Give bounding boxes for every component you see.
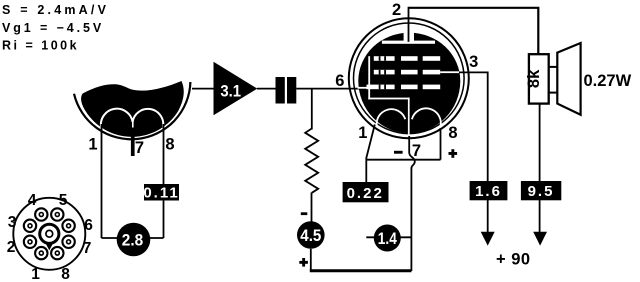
svg-text:1: 1	[88, 136, 97, 154]
svg-text:1: 1	[31, 266, 40, 282]
tube V2 anode notch for pin2	[404, 30, 414, 42]
wire tube V1 pin8 down	[163, 124, 165, 238]
svg-text:2: 2	[7, 239, 16, 256]
arrow screen supply	[481, 232, 495, 246]
wire pin7 with hop over wire	[409, 136, 415, 169]
speaker horn	[557, 43, 580, 115]
minus sign at 4.5	[301, 212, 308, 215]
wire rail up to cathode pin7	[410, 168, 412, 272]
svg-text:0.27W: 0.27W	[584, 72, 632, 90]
tube V2 electrode disc	[358, 33, 460, 134]
value circle 4.5 (grid bias battery)	[297, 221, 325, 249]
wire stub to 1.4	[366, 236, 411, 238]
wire resistor to battery 4.5	[311, 193, 313, 223]
wire V1 anode to amplifier	[192, 88, 214, 90]
svg-text:5: 5	[59, 192, 68, 209]
wire amplifier to capacitor	[257, 88, 276, 90]
tube V2 right hump	[412, 108, 441, 127]
svg-text:S = 2.4mA/V: S = 2.4mA/V	[2, 3, 109, 17]
wire capacitor to grid pin6	[296, 88, 359, 90]
wire pin8 down	[440, 128, 442, 160]
socket pin 7	[62, 236, 74, 248]
svg-text:0.11: 0.11	[143, 184, 179, 201]
wire pin2 up to HT rail	[408, 7, 410, 42]
wire bottom joining pins 1-8	[102, 237, 164, 239]
svg-text:7: 7	[135, 139, 144, 157]
svg-text:1.4: 1.4	[378, 230, 398, 248]
wire junction to grid resistor	[311, 89, 313, 130]
svg-text:3: 3	[8, 214, 17, 231]
tube V1 pin 7 stub	[131, 128, 135, 157]
wire transformer down	[539, 104, 541, 233]
plus sign at cathode	[449, 149, 458, 158]
tube V2 inner envelope	[354, 23, 465, 134]
wire HT rail top	[409, 8, 539, 54]
svg-text:2: 2	[392, 1, 401, 19]
svg-text:3: 3	[469, 53, 478, 71]
value circle 2.8	[117, 223, 151, 257]
tube V2 center white lead	[408, 98, 410, 135]
tube V2 pin6 white lead	[358, 87, 368, 89]
tube V2 left hump	[377, 109, 406, 127]
plus sign at 4.5	[299, 258, 308, 267]
tube socket diagram	[7, 192, 94, 282]
tube V2 grid bracket	[368, 56, 370, 99]
minus sign at cathode	[394, 151, 403, 154]
svg-text:8: 8	[165, 136, 174, 154]
socket pin 4	[35, 208, 47, 220]
svg-text:1.6: 1.6	[475, 183, 502, 200]
wire bottom rail	[310, 269, 412, 272]
amplifier triangle 3.1	[214, 62, 258, 116]
socket pin 8	[51, 247, 63, 259]
svg-text:8: 8	[61, 266, 70, 282]
svg-text:7: 7	[83, 240, 92, 257]
wire pin1 diagonal down	[366, 125, 375, 183]
socket center key	[40, 224, 59, 243]
wire pin3 to screen	[459, 72, 488, 233]
svg-text:4.5: 4.5	[300, 227, 321, 245]
wire pin1 to pin8 horizontal	[366, 159, 440, 161]
svg-text:+ 90: + 90	[496, 251, 531, 269]
svg-text:1: 1	[358, 124, 367, 142]
svg-text:0.22: 0.22	[347, 185, 384, 202]
socket outline	[13, 198, 85, 270]
tube V2 grid row2	[374, 70, 459, 75]
value box 0.11	[143, 184, 179, 201]
tube V1 left hump	[101, 109, 163, 128]
socket pin 3	[24, 220, 36, 232]
speaker stubs	[549, 66, 558, 68]
tube V1 cathode blob	[81, 81, 184, 137]
svg-text:2.8: 2.8	[122, 232, 143, 250]
svg-text:6: 6	[84, 217, 93, 234]
socket pin 5	[51, 208, 63, 220]
socket pin 2	[24, 236, 36, 248]
tube V2 outer envelope	[349, 18, 469, 138]
capacitor C1	[276, 77, 297, 104]
wire tube V1 pin1 down	[101, 124, 103, 238]
svg-text:8: 8	[448, 124, 457, 142]
wire battery to bottom rail	[310, 249, 312, 271]
output transformer 8k	[525, 54, 549, 103]
tube V2 (output pentode, bottom view)	[349, 18, 469, 138]
svg-text:4: 4	[28, 192, 37, 209]
svg-text:3.1: 3.1	[220, 82, 241, 100]
svg-text:9.5: 9.5	[528, 183, 555, 200]
socket pin 1	[35, 247, 47, 259]
svg-text:6: 6	[335, 72, 344, 90]
svg-text:Ri = 100k: Ri = 100k	[2, 39, 79, 53]
svg-text:8k: 8k	[525, 69, 543, 88]
value box 0.22	[343, 182, 389, 202]
value box 1.6	[470, 181, 508, 200]
value circle 1.4	[374, 225, 401, 252]
tube V1 envelope arc	[74, 82, 190, 139]
socket pin 6	[62, 220, 74, 232]
tube V1 center line	[132, 122, 134, 133]
tube V2 anode top bar	[382, 41, 435, 44]
svg-text:Vg1 = −4.5V: Vg1 = −4.5V	[2, 21, 104, 35]
tube V1 (partial, bottom view)	[74, 81, 190, 139]
tube V2 grid row1	[374, 56, 440, 61]
arrow anode supply	[533, 232, 547, 246]
resistor R1 (grid leak)	[305, 129, 318, 193]
tube V2 grid row3	[367, 85, 441, 90]
value box 9.5	[521, 181, 561, 200]
